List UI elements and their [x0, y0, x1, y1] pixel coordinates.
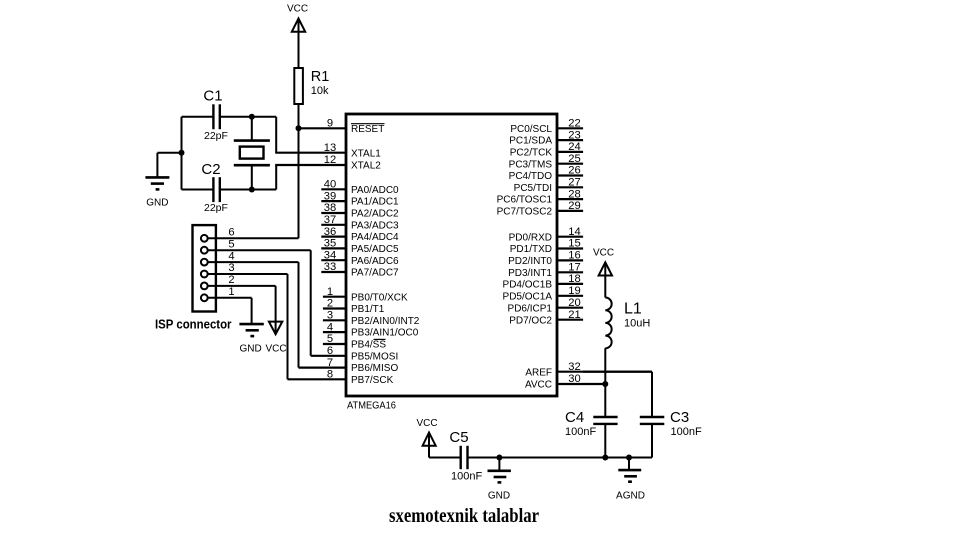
- pin 24 PC2/TCK: [510, 141, 583, 158]
- node AGND junction: [626, 455, 632, 461]
- svg-text:33: 33: [324, 261, 336, 273]
- svg-text:PD1/TXD: PD1/TXD: [510, 244, 552, 255]
- wire crystal top lead: [251, 117, 253, 140]
- pin 36 PA4/ADC4: [321, 226, 399, 243]
- svg-text:36: 36: [324, 226, 336, 238]
- svg-text:GND: GND: [146, 198, 168, 209]
- wire AREF to C3: [583, 372, 652, 417]
- svg-text:17: 17: [568, 262, 580, 274]
- svg-text:GND: GND: [488, 491, 510, 502]
- wire left vertical rail: [181, 117, 183, 190]
- node GND bottom junction: [496, 455, 502, 461]
- wire C3 bottom: [651, 424, 653, 458]
- svg-text:6: 6: [327, 345, 333, 357]
- capacitor C1: [203, 88, 228, 143]
- pin 20 PD6/ICP1: [508, 297, 584, 314]
- svg-text:L1: L1: [624, 301, 642, 318]
- node C4 bottom junction: [602, 455, 608, 461]
- pin 30 AVCC: [525, 373, 605, 390]
- svg-text:PB0/T0/XCK: PB0/T0/XCK: [351, 292, 408, 303]
- svg-text:1: 1: [228, 286, 234, 298]
- svg-text:15: 15: [568, 238, 580, 250]
- svg-text:AGND: AGND: [616, 491, 645, 502]
- wire crystal to XTAL2: [275, 165, 277, 190]
- svg-text:PC0/SCL: PC0/SCL: [510, 124, 552, 135]
- svg-text:VCC: VCC: [416, 418, 437, 429]
- ISP pin circle 4: [201, 259, 208, 266]
- svg-text:PA6/ADC6: PA6/ADC6: [351, 256, 399, 267]
- svg-text:9: 9: [327, 118, 333, 130]
- capacitor C5: [449, 429, 482, 483]
- svg-text:3: 3: [327, 310, 333, 322]
- pin 34 PA6/ADC6: [321, 249, 399, 266]
- wire crystal bottom lead: [251, 166, 253, 190]
- svg-text:40: 40: [324, 179, 336, 191]
- svg-text:24: 24: [568, 141, 580, 153]
- svg-text:10uH: 10uH: [624, 318, 650, 330]
- pin 39 PA1/ADC1: [321, 190, 399, 207]
- svg-text:20: 20: [568, 297, 580, 309]
- wire C2 right to corner: [220, 189, 276, 191]
- pin 8 PB7/SCK: [288, 369, 394, 386]
- svg-text:19: 19: [568, 285, 580, 297]
- wire ISP pin2 to VCC: [208, 274, 276, 333]
- svg-text:PD6/ICP1: PD6/ICP1: [508, 303, 553, 314]
- svg-text:28: 28: [568, 188, 580, 200]
- wire ISP pin3 to PB7/SCK: [208, 262, 288, 379]
- ISP connector J1: [193, 225, 216, 311]
- svg-text:6: 6: [228, 227, 234, 239]
- pin 33 PA7/ADC7: [321, 261, 399, 278]
- inductor L1: [605, 298, 650, 349]
- svg-text:34: 34: [324, 249, 336, 261]
- svg-text:12: 12: [324, 154, 336, 166]
- pin 27 PC5/TDI: [514, 177, 583, 194]
- svg-text:16: 16: [568, 250, 580, 262]
- ground GND ISP: [239, 324, 263, 354]
- svg-text:100nF: 100nF: [671, 426, 702, 438]
- pin 21 PD7/OC2: [509, 309, 583, 326]
- capacitor C4: [565, 409, 618, 438]
- svg-text:4: 4: [228, 250, 234, 262]
- svg-text:PC1/SDA: PC1/SDA: [509, 136, 552, 147]
- svg-text:4: 4: [327, 321, 333, 333]
- svg-text:PD7/OC2: PD7/OC2: [509, 315, 552, 326]
- svg-text:PD4/OC1B: PD4/OC1B: [503, 280, 553, 291]
- svg-text:PD0/RXD: PD0/RXD: [509, 232, 552, 243]
- node crystal bottom: [249, 187, 255, 193]
- power VCC bottom (left of C5): [416, 418, 437, 458]
- svg-text:3: 3: [228, 262, 234, 274]
- pin 1 PB0/T0/XCK: [323, 286, 408, 303]
- pin 4 PB3/AIN1/OC0: [323, 321, 419, 338]
- svg-text:PC7/TOSC2: PC7/TOSC2: [497, 207, 553, 218]
- ISP pin circle 6: [201, 235, 208, 242]
- pin 3 PB2/AIN0/INT2: [323, 310, 420, 327]
- pin 6 PB5/MOSI: [311, 345, 399, 362]
- pin 19 PD5/OC1A: [503, 285, 584, 302]
- svg-text:29: 29: [568, 200, 580, 212]
- svg-text:13: 13: [324, 142, 336, 154]
- svg-text:21: 21: [568, 309, 580, 321]
- pin 17 PD3/INT1: [508, 262, 583, 279]
- svg-text:XTAL2: XTAL2: [351, 161, 381, 172]
- node RESET junction: [296, 125, 302, 131]
- pin 13 XTAL1: [275, 142, 381, 159]
- svg-text:PB3/AIN1/OC0: PB3/AIN1/OC0: [351, 328, 419, 339]
- ISP pin circle 2: [201, 283, 208, 290]
- svg-text:PA1/ADC1: PA1/ADC1: [351, 197, 399, 208]
- svg-text:PD2/INT0: PD2/INT0: [508, 256, 552, 267]
- svg-text:5: 5: [327, 333, 333, 345]
- power VCC ISP (arrow down): [265, 322, 286, 355]
- capacitor C3: [640, 409, 702, 438]
- svg-text:8: 8: [327, 369, 333, 381]
- svg-text:100nF: 100nF: [451, 471, 482, 483]
- pin 14 PD0/RXD: [509, 226, 583, 243]
- svg-text:PB4/SS: PB4/SS: [351, 340, 386, 351]
- ISP pin circle 1: [201, 294, 208, 301]
- svg-text:ISP connector: ISP connector: [155, 317, 232, 332]
- svg-text:PB6/MISO: PB6/MISO: [351, 363, 398, 374]
- IC U1 ATMEGA16: [346, 114, 557, 412]
- wire ISP pin6 to RESET: [208, 227, 299, 239]
- svg-text:2: 2: [327, 298, 333, 310]
- wire ISP pin5 to PB5/MOSI: [208, 238, 311, 355]
- svg-text:PC3/TMS: PC3/TMS: [509, 159, 553, 170]
- wire L1 to AVCC node: [604, 348, 606, 417]
- svg-text:GND: GND: [240, 344, 262, 355]
- svg-text:PB1/T1: PB1/T1: [351, 304, 385, 315]
- svg-text:18: 18: [568, 273, 580, 285]
- svg-text:22: 22: [568, 118, 580, 130]
- svg-text:PC2/TCK: PC2/TCK: [510, 148, 553, 159]
- svg-text:PD3/INT1: PD3/INT1: [508, 268, 552, 279]
- svg-text:PC4/TDO: PC4/TDO: [509, 171, 553, 182]
- svg-text:PB7/SCK: PB7/SCK: [351, 375, 394, 386]
- svg-text:ATMEGA16: ATMEGA16: [347, 400, 396, 412]
- wire C1 top rail: [182, 116, 214, 118]
- pin 12 XTAL2: [275, 154, 381, 171]
- svg-text:27: 27: [568, 177, 580, 189]
- power VCC top: [287, 4, 308, 69]
- pin 37 PA3/ADC3: [321, 214, 399, 231]
- svg-text:PC6/TOSC1: PC6/TOSC1: [497, 195, 553, 206]
- svg-text:25: 25: [568, 153, 580, 165]
- pin 22 PC0/SCL: [510, 118, 583, 135]
- wire VCC to C5: [429, 457, 461, 459]
- svg-text:C5: C5: [449, 429, 468, 446]
- pin 35 PA5/ADC5: [321, 238, 399, 255]
- svg-text:30: 30: [568, 373, 580, 385]
- svg-text:23: 23: [568, 129, 580, 141]
- wire bottom rail C5 to C3: [468, 457, 653, 459]
- pin 9 RESET: [299, 118, 385, 135]
- wire C4 bottom: [604, 424, 606, 458]
- svg-text:7: 7: [327, 357, 333, 369]
- pin 16 PD2/INT0: [508, 250, 583, 267]
- wire C2 bottom rail: [182, 189, 214, 191]
- wire R1 bottom to ISP pin6 vertical: [298, 104, 300, 238]
- pin 25 PC3/TMS: [509, 153, 583, 170]
- svg-text:100nF: 100nF: [565, 426, 596, 438]
- pin 7 PB6/MISO: [299, 357, 399, 374]
- node AVCC junction: [602, 381, 608, 387]
- svg-text:PB2/AIN0/INT2: PB2/AIN0/INT2: [351, 316, 420, 327]
- ground GND left: [145, 153, 181, 209]
- capacitor C2: [201, 161, 228, 214]
- svg-text:38: 38: [324, 202, 336, 214]
- svg-text:RESET: RESET: [351, 124, 384, 135]
- pin 23 PC1/SDA: [509, 129, 583, 146]
- svg-text:14: 14: [568, 226, 580, 238]
- svg-text:26: 26: [568, 165, 580, 177]
- svg-text:AREF: AREF: [525, 367, 552, 378]
- pin 40 PA0/ADC0: [321, 179, 399, 196]
- svg-text:VCC: VCC: [593, 248, 614, 259]
- ISP pin circle 5: [201, 247, 208, 254]
- svg-text:39: 39: [324, 190, 336, 202]
- svg-text:2: 2: [228, 274, 234, 286]
- pin 5 PB4/SS: [323, 333, 386, 350]
- svg-text:PA3/ADC3: PA3/ADC3: [351, 220, 399, 231]
- svg-text:32: 32: [568, 361, 580, 373]
- svg-text:C3: C3: [670, 409, 689, 426]
- svg-text:PD5/OC1A: PD5/OC1A: [503, 291, 553, 302]
- pin 18 PD4/OC1B: [503, 273, 584, 290]
- svg-text:37: 37: [324, 214, 336, 226]
- svg-text:PA0/ADC0: PA0/ADC0: [351, 185, 399, 196]
- node GND branch: [179, 150, 185, 156]
- svg-text:35: 35: [324, 238, 336, 250]
- resistor R1: [294, 68, 329, 104]
- svg-text:PA5/ADC5: PA5/ADC5: [351, 244, 399, 255]
- wire C1 right to corner: [220, 116, 276, 118]
- pin 29 PC7/TOSC2: [497, 200, 583, 217]
- power VCC right (above L1): [593, 248, 614, 298]
- wire ISP pin4 to PB6/MISO: [208, 250, 299, 367]
- svg-text:PC5/TDI: PC5/TDI: [514, 183, 552, 194]
- svg-text:PA4/ADC4: PA4/ADC4: [351, 232, 399, 243]
- svg-text:22pF: 22pF: [204, 202, 228, 214]
- wire ISP pin1 to GND: [208, 286, 252, 324]
- pin 15 PD1/TXD: [510, 238, 583, 255]
- svg-text:C1: C1: [203, 88, 222, 105]
- pin 28 PC6/TOSC1: [497, 188, 583, 205]
- svg-text:R1: R1: [311, 69, 330, 85]
- wire crystal to XTAL1: [275, 117, 277, 153]
- pin 2 PB1/T1: [323, 298, 385, 315]
- svg-text:VCC: VCC: [265, 344, 286, 355]
- svg-text:C2: C2: [201, 161, 220, 178]
- svg-text:sxemotexnik talablar: sxemotexnik talablar: [389, 506, 539, 527]
- svg-text:AVCC: AVCC: [525, 380, 552, 391]
- pin 26 PC4/TDO: [509, 165, 583, 182]
- pin 32 AREF: [525, 361, 651, 378]
- crystal X1: [234, 141, 270, 166]
- svg-text:PB5/MOSI: PB5/MOSI: [351, 351, 398, 362]
- ground AGND: [616, 458, 645, 502]
- svg-text:C4: C4: [565, 409, 584, 426]
- pin 38 PA2/ADC2: [321, 202, 399, 219]
- svg-text:5: 5: [228, 238, 234, 250]
- node crystal top: [249, 114, 255, 120]
- svg-text:PA2/ADC2: PA2/ADC2: [351, 209, 399, 220]
- svg-text:1: 1: [327, 286, 333, 298]
- svg-text:XTAL1: XTAL1: [351, 148, 381, 159]
- ISP pin circle 3: [201, 271, 208, 278]
- svg-text:10k: 10k: [311, 85, 329, 97]
- svg-text:VCC: VCC: [287, 4, 308, 15]
- ground GND bottom: [488, 458, 511, 502]
- svg-text:22pF: 22pF: [204, 130, 228, 142]
- svg-text:PA7/ADC7: PA7/ADC7: [351, 268, 399, 279]
